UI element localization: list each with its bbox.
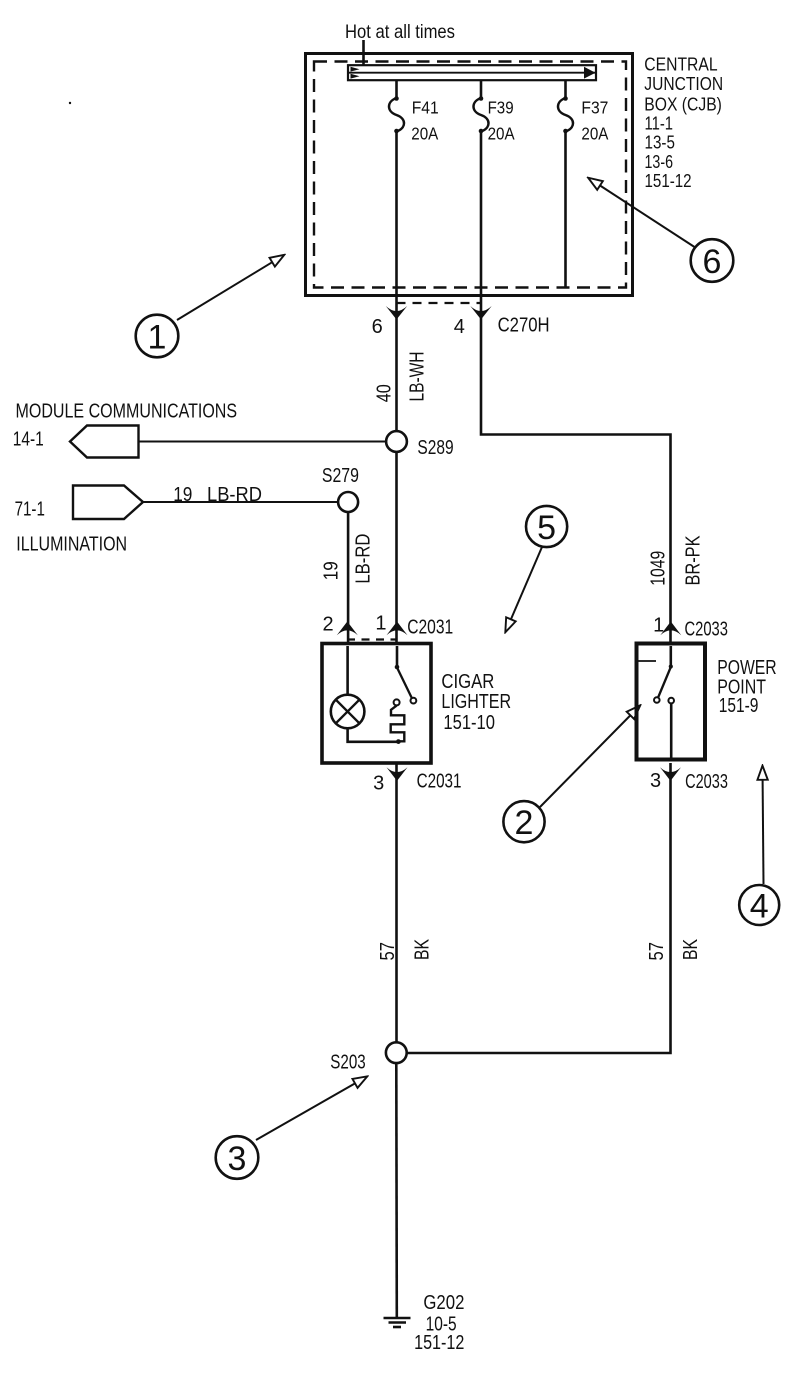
bus bar (hot at all times feed) <box>348 65 596 80</box>
connector C2031 dashed bridge <box>347 638 397 640</box>
power point box <box>637 644 706 760</box>
svg-text:6: 6 <box>372 316 383 338</box>
callout circle 2 <box>503 801 544 842</box>
contact (power point) <box>668 698 674 704</box>
svg-text:4: 4 <box>454 316 465 338</box>
wire: cigar lighter pin 3 down to S203 <box>395 763 398 1042</box>
svg-text:LB-WH: LB-WH <box>405 352 428 402</box>
svg-text:G202: G202 <box>423 1292 464 1314</box>
svg-text:ILLUMINATION: ILLUMINATION <box>16 532 127 555</box>
wire: pin 2 into lamp <box>346 646 349 695</box>
svg-text:1049: 1049 <box>646 551 669 586</box>
svg-text:LB-RD: LB-RD <box>352 534 375 584</box>
wire: power point pin 3 down and over to S203 <box>407 763 671 1053</box>
svg-text:1: 1 <box>148 319 167 357</box>
svg-text:71-1: 71-1 <box>15 497 45 520</box>
svg-text:C2031: C2031 <box>407 617 453 639</box>
pin 4 arrow <box>470 306 491 320</box>
central junction box inner dashed border <box>314 62 626 288</box>
connector 71-1 illumination (points right) <box>73 486 143 520</box>
svg-text:1: 1 <box>653 615 664 637</box>
wire: bus to fuse F41 <box>395 80 398 98</box>
svg-text:C2033: C2033 <box>685 771 728 793</box>
leader from callout 2 to power point <box>540 716 630 808</box>
svg-text:C2031: C2031 <box>417 771 462 793</box>
svg-text:C2033: C2033 <box>685 619 728 641</box>
wire: S289 down to pin 1 <box>395 452 398 644</box>
svg-text:F37: F37 <box>581 98 608 118</box>
svg-text:6: 6 <box>703 243 722 281</box>
wire: fuse F39 to pin 4 then over to power point <box>481 132 671 644</box>
svg-text:BK: BK <box>410 939 433 960</box>
svg-text:LIGHTER: LIGHTER <box>441 691 511 713</box>
svg-text:151-9: 151-9 <box>719 695 759 717</box>
pin 3 arrow (cigar lighter) <box>387 767 408 781</box>
splice S203 <box>386 1042 407 1063</box>
label F37 20A <box>581 98 608 144</box>
wire: 14-1 connector to S289 <box>139 441 387 443</box>
svg-text:F41: F41 <box>412 98 439 118</box>
svg-text:13-6: 13-6 <box>645 152 674 172</box>
stray scan speck <box>69 102 71 104</box>
connector 14-1 module communications (points left) <box>70 426 139 458</box>
svg-text:20A: 20A <box>581 124 608 144</box>
label POWER POINT 151-9 <box>717 657 777 717</box>
svg-text:151-10: 151-10 <box>443 712 495 734</box>
svg-text:LB-RD: LB-RD <box>207 483 262 506</box>
svg-text:POWER: POWER <box>717 657 777 679</box>
svg-text:19: 19 <box>173 483 192 506</box>
callout circle 4 <box>739 885 779 926</box>
wire: contact down to pin 3 <box>670 703 673 759</box>
cigar lighter box <box>322 644 431 764</box>
svg-text:4: 4 <box>750 888 769 926</box>
svg-text:S279: S279 <box>322 464 359 487</box>
wire: S279 down to pin 2 <box>347 512 350 644</box>
svg-text:2: 2 <box>515 804 534 842</box>
callout circle 3 <box>216 1136 259 1179</box>
internal stub line (power point) <box>639 660 657 662</box>
connector C270H dashed bridge <box>397 302 482 304</box>
wire: lamp bottom to heater <box>348 728 398 742</box>
fuse F39 <box>474 96 489 133</box>
svg-text:C270H: C270H <box>498 315 550 337</box>
leader from callout 4 (upward) <box>762 780 765 884</box>
svg-text:CIGAR: CIGAR <box>441 671 494 693</box>
leader from callout 3 to S203 <box>256 1084 355 1141</box>
svg-text:19: 19 <box>320 561 343 580</box>
wire: fuse F37 stub <box>564 132 567 288</box>
lamp (cigar lighter illumination) <box>331 695 365 729</box>
pin 3 arrow (power point) <box>660 767 681 781</box>
leader from callout 1 to CJB <box>177 262 272 320</box>
switch blade (cigar lighter) <box>397 668 412 699</box>
svg-text:MODULE COMMUNICATIONS: MODULE COMMUNICATIONS <box>16 399 238 422</box>
label F39 20A <box>488 98 515 144</box>
pin 1 arrow (power point) <box>660 622 681 636</box>
svg-text:3: 3 <box>228 1140 247 1178</box>
svg-text:5: 5 <box>537 509 556 547</box>
heater element <box>391 706 405 742</box>
wire: S203 down to ground <box>395 1063 398 1317</box>
wire: pin 1 into switch <box>396 646 399 667</box>
svg-text:151-12: 151-12 <box>645 171 692 191</box>
label G202 10-5 151-12 <box>414 1292 464 1354</box>
svg-text:JUNCTION: JUNCTION <box>644 74 723 94</box>
svg-text:BR-PK: BR-PK <box>682 535 705 585</box>
callout circle 6 <box>691 239 734 282</box>
pin 2 arrow <box>337 622 358 636</box>
svg-text:Hot at all times: Hot at all times <box>345 21 455 43</box>
fuse F37 <box>558 96 573 133</box>
svg-text:20A: 20A <box>488 124 515 144</box>
ground G202 <box>384 1318 411 1327</box>
callout circle 1 <box>136 315 179 358</box>
heater contact <box>394 699 400 705</box>
svg-text:151-12: 151-12 <box>414 1332 464 1354</box>
label F41 20A <box>411 98 438 144</box>
svg-text:14-1: 14-1 <box>13 427 44 450</box>
wire: pin 1 into switch (power point) <box>669 646 672 667</box>
svg-text:S289: S289 <box>417 436 453 459</box>
svg-text:1: 1 <box>375 613 386 635</box>
splice S289 <box>386 431 407 452</box>
svg-text:F39: F39 <box>488 98 514 118</box>
svg-text:S203: S203 <box>330 1050 365 1073</box>
svg-text:13-5: 13-5 <box>645 133 675 153</box>
svg-text:3: 3 <box>373 772 384 794</box>
svg-text:CENTRAL: CENTRAL <box>644 54 717 74</box>
svg-text:2: 2 <box>323 614 334 636</box>
wire: fuse F41 to pin 6 <box>395 132 398 432</box>
wire: bus to fuse F37 <box>564 80 567 98</box>
label: CJB text block <box>644 54 723 191</box>
splice S279 <box>338 492 358 512</box>
central junction box outer border <box>306 54 633 296</box>
svg-text:20A: 20A <box>411 124 438 144</box>
svg-text:BOX (CJB): BOX (CJB) <box>644 95 722 115</box>
leader from callout 6 to CJB <box>600 186 694 247</box>
pin 1 arrow <box>387 622 408 636</box>
wire: 71-1 connector to S279 <box>143 501 338 503</box>
callout circle 5 <box>526 506 567 547</box>
leader from callout 5 <box>511 547 542 619</box>
wire: hot feed tick into bus <box>362 40 365 66</box>
fuse F41 <box>389 96 404 133</box>
svg-text:57: 57 <box>645 942 668 961</box>
svg-text:3: 3 <box>650 770 661 792</box>
svg-text:57: 57 <box>376 942 399 961</box>
switch blade (power point) <box>658 667 671 697</box>
svg-text:BK: BK <box>679 939 702 960</box>
wire: bus to fuse F39 <box>480 80 483 98</box>
svg-text:40: 40 <box>373 384 396 402</box>
label CIGAR LIGHTER 151-10 <box>441 671 511 734</box>
svg-text:11-1: 11-1 <box>645 113 674 133</box>
pin 6 arrow <box>386 306 407 320</box>
